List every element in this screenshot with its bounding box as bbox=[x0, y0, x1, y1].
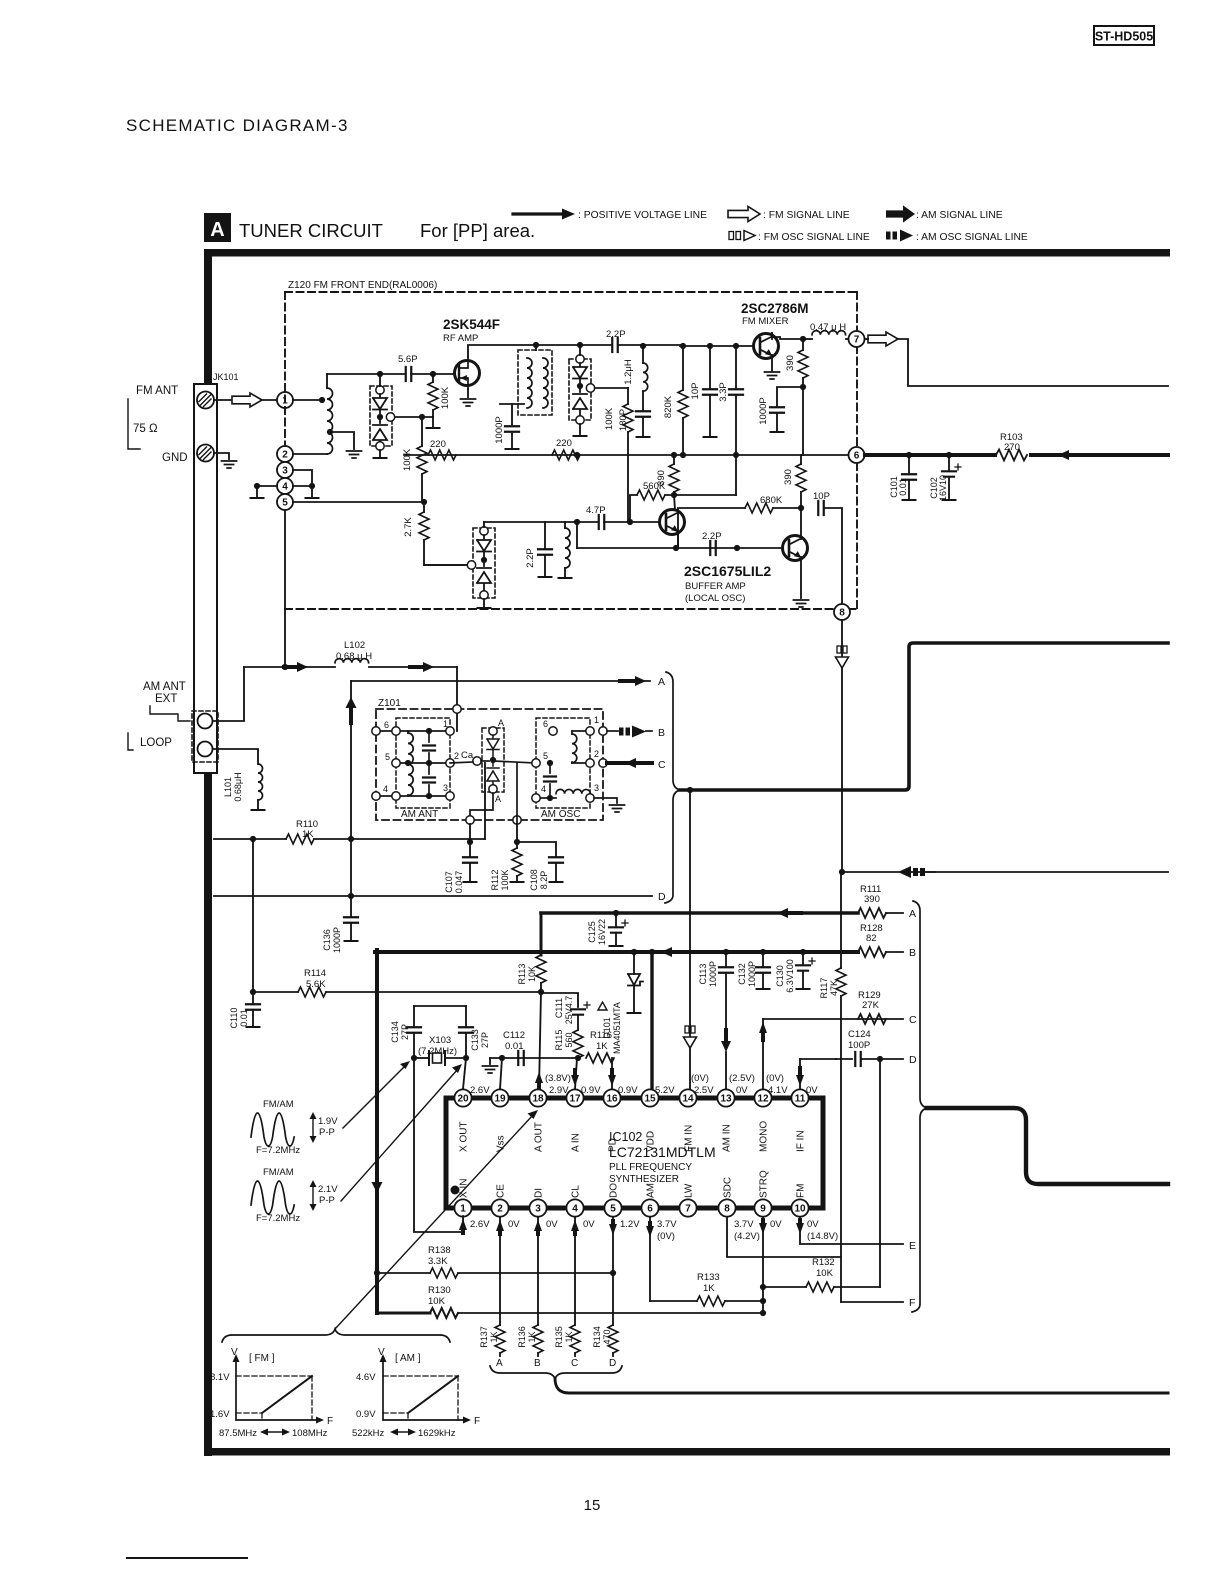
AM signal arrow on B+ line bbox=[1058, 450, 1069, 460]
svg-text:2.2P: 2.2P bbox=[702, 531, 722, 542]
svg-text:2.2P: 2.2P bbox=[525, 548, 536, 568]
svg-text:P-P: P-P bbox=[319, 1127, 335, 1138]
node 4 bbox=[277, 478, 293, 494]
AM signal arrow on L102 line left bbox=[297, 662, 308, 672]
svg-text:F: F bbox=[474, 1416, 480, 1427]
svg-text:R113: R113 bbox=[517, 964, 527, 985]
svg-text:16V22: 16V22 bbox=[597, 919, 607, 945]
svg-text:X IN: X IN bbox=[459, 1179, 470, 1198]
svg-text:Z120 FM FRONT END(RAL0006): Z120 FM FRONT END(RAL0006) bbox=[288, 280, 437, 291]
svg-text:FM: FM bbox=[796, 1184, 807, 1198]
AM antenna connector dashed box bbox=[192, 711, 218, 762]
svg-text:C134: C134 bbox=[390, 1021, 400, 1043]
svg-text:100K: 100K bbox=[402, 448, 413, 471]
svg-text:ST-HD505: ST-HD505 bbox=[1095, 30, 1153, 44]
varactor D3 oscillator tuning bbox=[473, 528, 495, 598]
FET source ground bbox=[467, 389, 469, 397]
AM line with L102 bbox=[244, 666, 335, 668]
wire coil top to gate line bbox=[327, 373, 404, 375]
LOOP terminal bbox=[198, 742, 213, 757]
svg-text:16: 16 bbox=[606, 1093, 618, 1104]
svg-text:0.9V: 0.9V bbox=[618, 1085, 638, 1096]
svg-text:5: 5 bbox=[543, 751, 548, 761]
varactor D1 ground bbox=[379, 450, 381, 457]
net B supply line thick bbox=[375, 950, 858, 954]
svg-text:390: 390 bbox=[785, 355, 796, 371]
svg-text:8.2P: 8.2P bbox=[539, 871, 549, 890]
Vss ground line bbox=[490, 1057, 578, 1059]
svg-text:0.68μH: 0.68μH bbox=[233, 772, 243, 801]
svg-text:C: C bbox=[909, 1014, 917, 1026]
svg-text:4: 4 bbox=[541, 784, 546, 794]
svg-text:0V: 0V bbox=[807, 1219, 819, 1230]
CL drop wire bbox=[574, 1217, 576, 1325]
AM drop wire bbox=[649, 1217, 651, 1301]
AM ANT EXT leader bbox=[150, 706, 190, 721]
FM drop wire to net E bbox=[800, 1217, 903, 1244]
svg-text:1: 1 bbox=[443, 719, 448, 729]
svg-text:X OUT: X OUT bbox=[459, 1121, 470, 1152]
svg-text:10K: 10K bbox=[527, 966, 537, 982]
svg-text:C130: C130 bbox=[775, 965, 785, 987]
AM OSC section dashed box bbox=[536, 718, 590, 808]
STRQ drop wire bbox=[762, 1217, 764, 1313]
net D line upper bbox=[214, 895, 652, 897]
AM ANT winding bbox=[408, 733, 413, 795]
svg-text:0.01: 0.01 bbox=[505, 1041, 524, 1052]
svg-text:(0V): (0V) bbox=[766, 1073, 784, 1084]
svg-text:FM/AM: FM/AM bbox=[263, 1167, 294, 1178]
svg-text:9: 9 bbox=[760, 1203, 766, 1214]
svg-text:1000P: 1000P bbox=[494, 416, 505, 443]
varactor Ca diode pair bbox=[482, 728, 504, 792]
AM ANT pin row 2 bbox=[396, 762, 450, 764]
svg-text:522kHz: 522kHz bbox=[352, 1428, 384, 1439]
Z101 bottom boundary circle right bbox=[513, 816, 521, 824]
svg-text:C132: C132 bbox=[737, 963, 747, 985]
antenna coil T101 bbox=[326, 374, 328, 388]
svg-text:RF AMP: RF AMP bbox=[443, 333, 478, 344]
node 3 bbox=[277, 462, 293, 478]
wire R110 right up to Ca line bbox=[484, 763, 486, 839]
svg-text:SYNTHESIZER: SYNTHESIZER bbox=[609, 1174, 679, 1185]
svg-text:: FM OSC SIGNAL LINE: : FM OSC SIGNAL LINE bbox=[758, 232, 870, 243]
varactor D3 ground bbox=[483, 599, 485, 607]
svg-text:2SC2786M: 2SC2786M bbox=[741, 301, 809, 316]
svg-text:C110: C110 bbox=[229, 1008, 239, 1029]
svg-text:0V: 0V bbox=[736, 1085, 748, 1096]
AM signal arrow into AM IN bbox=[721, 1041, 731, 1052]
svg-text:560: 560 bbox=[564, 1032, 574, 1047]
svg-text:1.9V: 1.9V bbox=[318, 1116, 338, 1127]
svg-text:L101: L101 bbox=[223, 777, 233, 797]
svg-text:B: B bbox=[909, 947, 916, 959]
section label A TUNER CIRCUIT bbox=[204, 213, 231, 242]
svg-text:27K: 27K bbox=[862, 1000, 880, 1011]
connector JK101 body bbox=[194, 384, 217, 773]
svg-text:2: 2 bbox=[454, 751, 459, 761]
varactor D1 tuning diode pair bbox=[370, 386, 392, 446]
AM OSC pin rows bbox=[493, 761, 536, 763]
svg-text:MA4051MTA: MA4051MTA bbox=[612, 1002, 622, 1054]
local osc emitter wire bbox=[677, 531, 679, 548]
svg-text:A: A bbox=[495, 794, 501, 804]
svg-text:EXT: EXT bbox=[155, 693, 177, 705]
svg-text:100K: 100K bbox=[500, 869, 510, 890]
svg-text:2.7K: 2.7K bbox=[403, 517, 414, 537]
wire varactor D2 to RF line bbox=[579, 345, 581, 355]
border frame top bbox=[204, 249, 1170, 257]
varactor D3 tap circle bbox=[467, 561, 475, 569]
svg-text:100K: 100K bbox=[440, 386, 451, 409]
AM signal arrow to net A bbox=[635, 676, 646, 686]
wire node 7 to right edge bbox=[898, 339, 1168, 386]
wire local osc base bbox=[630, 521, 666, 523]
net D line from IF IN bbox=[800, 1058, 836, 1060]
wire GND terminal to ground bbox=[214, 453, 229, 459]
wire FM ANT to node 1 bbox=[214, 399, 276, 401]
IC102 pin 4 CL bbox=[566, 1199, 583, 1216]
svg-text:390: 390 bbox=[864, 894, 880, 905]
svg-text:2: 2 bbox=[282, 449, 288, 460]
svg-text:D: D bbox=[909, 1054, 917, 1066]
svg-text:DO: DO bbox=[609, 1183, 620, 1198]
svg-text:R112: R112 bbox=[490, 870, 500, 891]
svg-text:100K: 100K bbox=[604, 407, 615, 430]
GND terminal screw bbox=[197, 445, 214, 462]
svg-text:0V: 0V bbox=[583, 1219, 595, 1230]
IC102 pin 16 PD bbox=[603, 1089, 620, 1106]
wire node 4 to ground left bbox=[257, 486, 277, 497]
svg-text:19: 19 bbox=[494, 1093, 506, 1104]
svg-text:2.6V: 2.6V bbox=[470, 1219, 490, 1230]
B line corner down thick bbox=[375, 950, 379, 1313]
svg-text:R138: R138 bbox=[428, 1245, 451, 1256]
coil tap to ground bbox=[330, 432, 354, 449]
net bus to right edge thick bbox=[927, 1108, 1168, 1184]
svg-text:3: 3 bbox=[594, 783, 599, 793]
wire L102 line down to Z101 pin 1 bbox=[456, 667, 458, 731]
wire node 1 to coil tap bbox=[293, 399, 322, 401]
wire AM EXT to L102 line bbox=[213, 667, 244, 721]
svg-text:FM ANT: FM ANT bbox=[136, 385, 178, 397]
svg-text:C: C bbox=[571, 1358, 578, 1369]
IC102 pin 20 X OUT bbox=[454, 1089, 471, 1106]
svg-text:4: 4 bbox=[572, 1203, 578, 1214]
svg-text:CL: CL bbox=[571, 1185, 582, 1198]
svg-text:6: 6 bbox=[854, 450, 860, 461]
svg-text:10K: 10K bbox=[428, 1296, 446, 1307]
wire node 5 down to L102 line bbox=[284, 510, 286, 667]
waveform 2 pp arrow bbox=[312, 1186, 314, 1206]
svg-text:4: 4 bbox=[282, 481, 288, 492]
svg-text:TUNER CIRCUIT: TUNER CIRCUIT bbox=[239, 220, 383, 241]
svg-text:R130: R130 bbox=[428, 1285, 451, 1296]
svg-text:390: 390 bbox=[783, 469, 794, 485]
svg-text:6: 6 bbox=[647, 1203, 653, 1214]
svg-text:4.7P: 4.7P bbox=[586, 505, 606, 516]
svg-text:1000P: 1000P bbox=[332, 927, 342, 953]
svg-text:R134: R134 bbox=[592, 1326, 602, 1348]
wire interstage to RF line bbox=[535, 345, 537, 350]
wire varactor tap to 100K column bbox=[395, 416, 433, 418]
svg-text:87.5MHz: 87.5MHz bbox=[219, 1428, 257, 1439]
svg-text:A IN: A IN bbox=[571, 1133, 582, 1152]
svg-text:C107: C107 bbox=[444, 871, 454, 893]
resistor 220 right bbox=[552, 450, 580, 460]
svg-text:108MHz: 108MHz bbox=[292, 1428, 328, 1439]
IC102 pin 8 SDC bbox=[718, 1199, 735, 1216]
svg-text:2SK544F: 2SK544F bbox=[443, 317, 500, 332]
A OUT riser with arrow bbox=[539, 992, 541, 1089]
svg-text:2.9V: 2.9V bbox=[549, 1085, 569, 1096]
resistor 100K oscillator tuning feed bbox=[595, 387, 628, 389]
AM OSC padder cap bbox=[549, 763, 551, 773]
svg-text:15: 15 bbox=[644, 1093, 656, 1104]
wire node 8 down with FM OSC arrow bbox=[841, 620, 843, 872]
crystal cap rail bbox=[414, 1005, 466, 1007]
local osc collector wire bbox=[674, 495, 675, 510]
svg-text:0V: 0V bbox=[546, 1219, 558, 1230]
svg-text:2.2P: 2.2P bbox=[606, 329, 626, 340]
IC102 pin 15 VDD bbox=[641, 1089, 658, 1106]
node 1 bbox=[277, 392, 293, 408]
svg-text:2SC1675LIL2: 2SC1675LIL2 bbox=[684, 563, 771, 579]
svg-text:C124: C124 bbox=[848, 1029, 871, 1040]
CE drop wire bbox=[499, 1217, 501, 1325]
R117 C124 junction down to F bbox=[840, 1059, 842, 1302]
svg-text:15: 15 bbox=[584, 1497, 601, 1514]
pointer arrow to crystal left node bbox=[343, 1066, 405, 1128]
svg-text:For [PP] area.: For [PP] area. bbox=[420, 220, 535, 241]
svg-text:3: 3 bbox=[282, 465, 288, 476]
svg-text:C: C bbox=[658, 759, 666, 771]
svg-text:7: 7 bbox=[685, 1203, 691, 1214]
svg-text:0V: 0V bbox=[770, 1219, 782, 1230]
svg-text:820K: 820K bbox=[663, 395, 674, 418]
oscillator coil bbox=[564, 522, 566, 528]
svg-text:4.1V: 4.1V bbox=[768, 1085, 788, 1096]
svg-text:B: B bbox=[658, 727, 665, 739]
svg-text:AM IN: AM IN bbox=[722, 1124, 733, 1152]
FM ANT terminal screw bbox=[197, 392, 214, 409]
svg-text:7: 7 bbox=[854, 334, 860, 345]
border frame bottom bbox=[204, 1448, 1170, 1456]
svg-text:(14.8V): (14.8V) bbox=[807, 1231, 838, 1242]
svg-text:R115: R115 bbox=[554, 1030, 564, 1051]
pointer arrow to crystal right node bbox=[341, 1069, 458, 1201]
svg-text:C136: C136 bbox=[322, 929, 332, 951]
Z101 boundary circle for L102 wire bbox=[453, 705, 461, 713]
IF IN riser bbox=[799, 1059, 801, 1089]
svg-text:X103: X103 bbox=[429, 1035, 451, 1046]
svg-text:SCHEMATIC DIAGRAM-3: SCHEMATIC DIAGRAM-3 bbox=[126, 116, 349, 135]
Vss riser bbox=[500, 1058, 502, 1089]
AM OSC return line bbox=[842, 871, 1168, 873]
svg-text:A OUT: A OUT bbox=[534, 1122, 545, 1152]
IC102 pin 10 FM bbox=[791, 1199, 808, 1216]
svg-text:390: 390 bbox=[656, 470, 667, 486]
svg-text:(3.8V): (3.8V) bbox=[545, 1073, 571, 1084]
svg-text:0.9V: 0.9V bbox=[356, 1409, 376, 1420]
resistor 100K RF AGC upper bbox=[432, 374, 434, 382]
svg-text:LOOP: LOOP bbox=[140, 737, 172, 749]
svg-text:LW: LW bbox=[684, 1183, 695, 1198]
svg-text:10K: 10K bbox=[816, 1268, 834, 1279]
AM EXT terminal bbox=[198, 714, 213, 729]
svg-text:PD: PD bbox=[608, 1138, 619, 1152]
AM OSC arrow on return line bbox=[898, 866, 911, 878]
svg-text:R133: R133 bbox=[697, 1272, 720, 1283]
svg-text:C125: C125 bbox=[587, 921, 597, 943]
svg-text:R135: R135 bbox=[554, 1326, 564, 1348]
AM signal arrow on B line bbox=[661, 947, 672, 957]
LOOP leader bbox=[128, 733, 133, 750]
buffer collector wire bbox=[800, 508, 802, 539]
svg-text:6: 6 bbox=[384, 720, 389, 730]
varactor D2 tuning diode pair bbox=[569, 359, 591, 420]
wire node 4 to right junction bbox=[293, 485, 312, 487]
svg-text:PLL FREQUENCY: PLL FREQUENCY bbox=[609, 1162, 692, 1173]
FM graph slope bbox=[262, 1376, 312, 1413]
svg-text:R132: R132 bbox=[812, 1257, 835, 1268]
PD riser bbox=[611, 1058, 613, 1089]
waveform 1 pp arrow bbox=[312, 1118, 314, 1138]
varactor D2 tap circle bbox=[586, 384, 594, 392]
legend AM OSC signal line symbol bbox=[886, 232, 891, 240]
svg-text:A: A bbox=[909, 908, 916, 920]
svg-text:11: 11 bbox=[795, 1093, 806, 1104]
AM signal arrow on A feed bbox=[777, 908, 788, 918]
svg-text:B: B bbox=[534, 1358, 541, 1369]
svg-text:R136: R136 bbox=[517, 1326, 527, 1348]
wire varactor to gate line bbox=[379, 374, 381, 386]
svg-text:0V: 0V bbox=[508, 1219, 520, 1230]
right net group bracket bbox=[912, 901, 927, 1312]
interstage transformer dashed box bbox=[518, 350, 552, 415]
FM OSC branch to pin 14 bbox=[689, 790, 691, 1089]
svg-text:1: 1 bbox=[594, 715, 599, 725]
svg-text:(4.2V): (4.2V) bbox=[734, 1231, 760, 1242]
mixer emitter ground bbox=[771, 355, 773, 371]
svg-text:L102: L102 bbox=[344, 640, 365, 651]
varactor D1 tap circle bbox=[386, 413, 394, 421]
svg-text:STRQ: STRQ bbox=[759, 1170, 770, 1198]
varactor D2 ground bbox=[579, 424, 581, 434]
wire FET drain to RF line bbox=[468, 345, 612, 357]
footer rule bbox=[127, 1557, 247, 1559]
X OUT riser bbox=[463, 1058, 466, 1089]
FM OSC arrow down from node 8 bbox=[837, 646, 841, 653]
FM OSC bus line thick bbox=[680, 643, 1168, 790]
IC102 pin 1 X IN bbox=[454, 1199, 471, 1216]
svg-text:5: 5 bbox=[610, 1203, 616, 1214]
AM graph slope bbox=[408, 1376, 458, 1413]
transistor local oscillator 2SC1675 bbox=[660, 510, 685, 535]
svg-text:1K: 1K bbox=[703, 1283, 715, 1294]
svg-text:3.3K: 3.3K bbox=[428, 1256, 448, 1267]
svg-text:220: 220 bbox=[430, 439, 446, 450]
IC102 pin 12 MONO bbox=[754, 1089, 771, 1106]
svg-text:1000P: 1000P bbox=[747, 961, 757, 987]
svg-text:F=7.2MHz: F=7.2MHz bbox=[256, 1213, 300, 1224]
wire LOOP to L101 bbox=[213, 749, 258, 764]
svg-text:A: A bbox=[210, 219, 224, 241]
IC102 pin 14 FM IN bbox=[679, 1089, 696, 1106]
svg-text:18: 18 bbox=[532, 1093, 544, 1104]
Z101 cap divider upper bbox=[428, 731, 430, 742]
svg-text:0.9V: 0.9V bbox=[581, 1085, 601, 1096]
svg-text:3.3P: 3.3P bbox=[718, 382, 729, 402]
positive voltage arrow down on supply riser bbox=[372, 1182, 383, 1193]
svg-text:D: D bbox=[609, 1358, 616, 1369]
svg-text:6.3V100: 6.3V100 bbox=[785, 959, 795, 993]
band data bus to right edge bbox=[555, 1379, 1168, 1393]
net A riser bbox=[350, 681, 352, 896]
IC102 pin 18 A OUT bbox=[529, 1089, 546, 1106]
FM ANT label bracket bbox=[128, 399, 140, 449]
svg-text:: AM OSC SIGNAL LINE: : AM OSC SIGNAL LINE bbox=[916, 232, 1028, 243]
svg-text:5.6P: 5.6P bbox=[398, 354, 418, 365]
svg-text:R114: R114 bbox=[304, 968, 326, 979]
svg-text:2: 2 bbox=[497, 1203, 503, 1214]
wire coil bottom to node 2 bbox=[293, 453, 327, 455]
wire Z101 pin2 to Ca bbox=[450, 762, 473, 763]
svg-text:MONO: MONO bbox=[759, 1121, 770, 1152]
svg-text:8.1V: 8.1V bbox=[210, 1372, 230, 1383]
IC102 pin 13 AM IN bbox=[717, 1089, 734, 1106]
node 5 bbox=[277, 494, 293, 510]
svg-text:2.5V: 2.5V bbox=[694, 1085, 714, 1096]
svg-text:100P: 100P bbox=[848, 1040, 870, 1051]
IC102 pin 3 DI bbox=[529, 1199, 546, 1216]
wire 560K line up to IF line bbox=[735, 455, 737, 495]
svg-text:(LOCAL OSC): (LOCAL OSC) bbox=[685, 593, 745, 604]
svg-text:AM OSC: AM OSC bbox=[541, 809, 580, 820]
svg-text:A: A bbox=[496, 1358, 503, 1369]
svg-text:0.01: 0.01 bbox=[898, 478, 908, 496]
legend AM signal line symbol bbox=[886, 205, 915, 222]
brace under band data nets bbox=[490, 1366, 622, 1379]
net A line upper bbox=[351, 680, 650, 682]
svg-text:SDC: SDC bbox=[723, 1177, 734, 1198]
mixer collector wire bbox=[771, 332, 773, 339]
svg-text:2.1V: 2.1V bbox=[318, 1184, 338, 1195]
svg-text:: FM SIGNAL LINE: : FM SIGNAL LINE bbox=[763, 210, 850, 221]
svg-text:CE: CE bbox=[496, 1184, 507, 1198]
IC102 pin 9 STRQ bbox=[754, 1199, 771, 1216]
svg-text:: AM SIGNAL LINE: : AM SIGNAL LINE bbox=[916, 210, 1003, 221]
IC102 pin 17 A IN bbox=[566, 1089, 583, 1106]
AM ANT pin row 3 bbox=[376, 795, 450, 797]
svg-text:13: 13 bbox=[720, 1093, 732, 1104]
svg-text:3: 3 bbox=[535, 1203, 541, 1214]
svg-text:C111: C111 bbox=[554, 998, 564, 1018]
svg-text:5: 5 bbox=[385, 752, 390, 762]
svg-text:1.2μH: 1.2μH bbox=[623, 359, 634, 385]
net C line from MONO bbox=[763, 1018, 903, 1020]
border frame left bbox=[204, 249, 212, 1456]
svg-text:5: 5 bbox=[282, 497, 288, 508]
svg-text:3: 3 bbox=[443, 783, 448, 793]
positive voltage arrow up bbox=[346, 697, 357, 708]
svg-text:10P: 10P bbox=[813, 491, 830, 502]
svg-text:FM MIXER: FM MIXER bbox=[742, 316, 789, 327]
svg-text:17: 17 bbox=[569, 1093, 581, 1104]
wire mixer branch down bbox=[802, 387, 804, 455]
net F line bbox=[841, 1301, 903, 1303]
wire node 3 to ground right bbox=[293, 470, 312, 497]
